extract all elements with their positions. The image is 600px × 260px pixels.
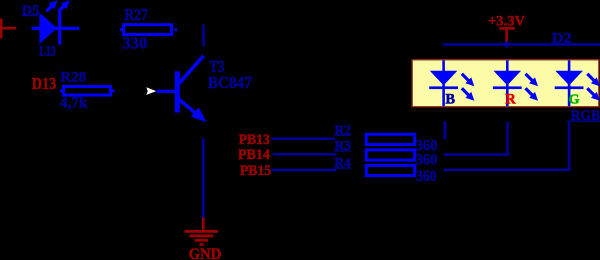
svg-text:PB15: PB15: [240, 163, 271, 179]
power +3.3V: [488, 13, 525, 44]
resistor R2: [366, 134, 414, 144]
svg-text:330: 330: [122, 34, 147, 53]
svg-text:PB13: PB13: [239, 132, 270, 148]
svg-text:G: G: [569, 93, 580, 108]
emitter arrowhead: [191, 108, 207, 123]
designator RGB: [567, 108, 600, 124]
designator R3: [335, 139, 352, 154]
emission arrow 1: [46, 0, 57, 11]
svg-text:+3.3V: +3.3V: [488, 13, 525, 29]
R27 pins: [120, 28, 122, 31]
wire PB13: [271, 137, 335, 139]
R28 pins: [60, 89, 62, 92]
ground: [185, 218, 222, 260]
svg-text:R2: R2: [335, 123, 351, 138]
svg-text:R4: R4: [334, 156, 351, 171]
wire PB14: [273, 153, 337, 155]
designator D2: [552, 30, 574, 46]
LED R (inside module): [493, 61, 538, 107]
wire PB15: [271, 169, 336, 171]
designator R2: [335, 123, 351, 138]
port arrow (white): [146, 87, 156, 95]
wire (collector stub): [202, 24, 205, 46]
svg-text:B: B: [445, 92, 455, 108]
transistor T3: [157, 56, 207, 122]
LED G (inside module): [555, 61, 600, 107]
svg-text:R3: R3: [335, 139, 352, 154]
LED B (inside module): [429, 61, 474, 107]
svg-text:L13: L13: [39, 43, 55, 59]
wire (B pin stub): [444, 121, 447, 139]
resistor R4: [366, 165, 414, 175]
wire (through LED D5): [32, 27, 80, 30]
svg-text:D5: D5: [22, 3, 40, 19]
collector: [178, 56, 204, 85]
emitter: [178, 99, 197, 115]
RGB LED module body: [412, 60, 599, 107]
resistor R28: [64, 87, 111, 96]
svg-text:BC847: BC847: [208, 73, 252, 92]
resistor R3: [366, 150, 414, 160]
designator D5: [22, 3, 40, 19]
svg-text:GND: GND: [189, 246, 222, 260]
LED D5: [39, 0, 69, 44]
svg-text:360: 360: [416, 168, 436, 185]
designator R28: [60, 69, 86, 85]
svg-text:D13: D13: [32, 74, 56, 93]
base bar: [175, 71, 180, 112]
emission arrow 2: [59, 0, 70, 11]
wire (G pin route): [444, 122, 571, 171]
designator R27: [124, 5, 147, 24]
svg-text:R28: R28: [60, 69, 86, 85]
svg-text:360: 360: [416, 152, 438, 169]
wire (R pin route): [444, 122, 509, 156]
wire (emitter to GND): [202, 138, 205, 217]
wire (top bus): [443, 43, 600, 46]
resistor R27: [124, 25, 172, 35]
svg-text:4,7k: 4,7k: [60, 95, 88, 112]
designator R4: [334, 156, 351, 171]
junction: [503, 41, 510, 48]
svg-text:PB14: PB14: [238, 147, 270, 163]
power symbol +V (left edge, cut off): [0, 19, 16, 39]
base wire: [157, 90, 176, 93]
svg-text:R: R: [505, 92, 516, 108]
svg-text:R27: R27: [124, 5, 147, 24]
